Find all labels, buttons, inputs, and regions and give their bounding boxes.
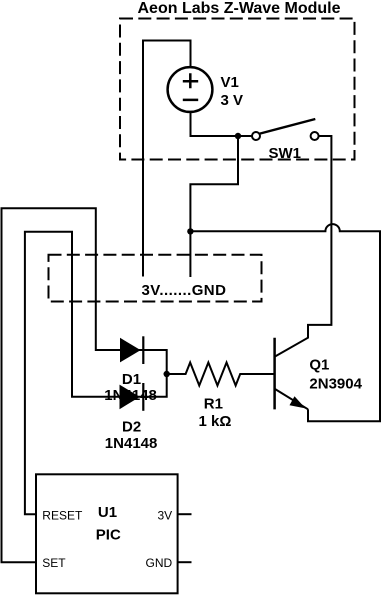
svg-text:1N4148: 1N4148 — [105, 435, 158, 452]
wire junction to GND terminal — [190, 136, 238, 277]
wire ground rail with hop to emitter — [190, 224, 380, 421]
svg-text:SET: SET — [42, 556, 66, 570]
svg-text:Aeon Labs Z-Wave Module: Aeon Labs Z-Wave Module — [138, 0, 341, 17]
wire V1 minus to switch — [191, 112, 253, 136]
wire RESET to D2 anode — [25, 232, 167, 515]
switch SW1 lever — [260, 119, 316, 134]
svg-text:1 kΩ: 1 kΩ — [199, 413, 232, 430]
svg-text:V1: V1 — [221, 74, 239, 91]
pin stub GND — [178, 561, 192, 563]
diode D1 — [120, 338, 141, 363]
node junction V1-SW1 — [235, 133, 241, 139]
diode D2 — [120, 385, 140, 410]
connector dashed box 3V/GND — [49, 255, 262, 302]
svg-text:RESET: RESET — [42, 508, 83, 522]
wire V1 plus to 3V terminal — [143, 41, 191, 277]
module dashed box — [120, 19, 355, 160]
svg-text:PIC: PIC — [96, 526, 121, 543]
transistor Q1 emitter — [275, 389, 308, 409]
node junction diodes — [164, 371, 170, 377]
voltage source V1 — [168, 67, 213, 112]
pin stub 3V — [178, 513, 192, 515]
resistor R1 — [167, 363, 274, 386]
svg-text:R1: R1 — [204, 395, 223, 412]
svg-text:GND: GND — [146, 556, 173, 570]
svg-text:D1: D1 — [122, 371, 141, 388]
svg-text:D2: D2 — [122, 418, 141, 435]
node junction ground rail — [187, 228, 193, 234]
svg-text:3V.......GND: 3V.......GND — [142, 282, 227, 299]
wire SET to D1 anode — [2, 208, 167, 562]
svg-text:3V: 3V — [158, 508, 173, 522]
switch SW1 right terminal — [311, 132, 319, 140]
IC U1 PIC box — [36, 474, 178, 593]
switch SW1 left terminal — [252, 132, 260, 140]
wire switch to collector — [275, 136, 331, 357]
svg-text:3 V: 3 V — [221, 92, 244, 109]
svg-text:U1: U1 — [98, 504, 117, 521]
svg-text:Q1: Q1 — [309, 356, 329, 373]
transistor Q1 base bar — [273, 338, 276, 410]
svg-text:2N3904: 2N3904 — [309, 375, 362, 392]
svg-text:SW1: SW1 — [269, 145, 302, 162]
